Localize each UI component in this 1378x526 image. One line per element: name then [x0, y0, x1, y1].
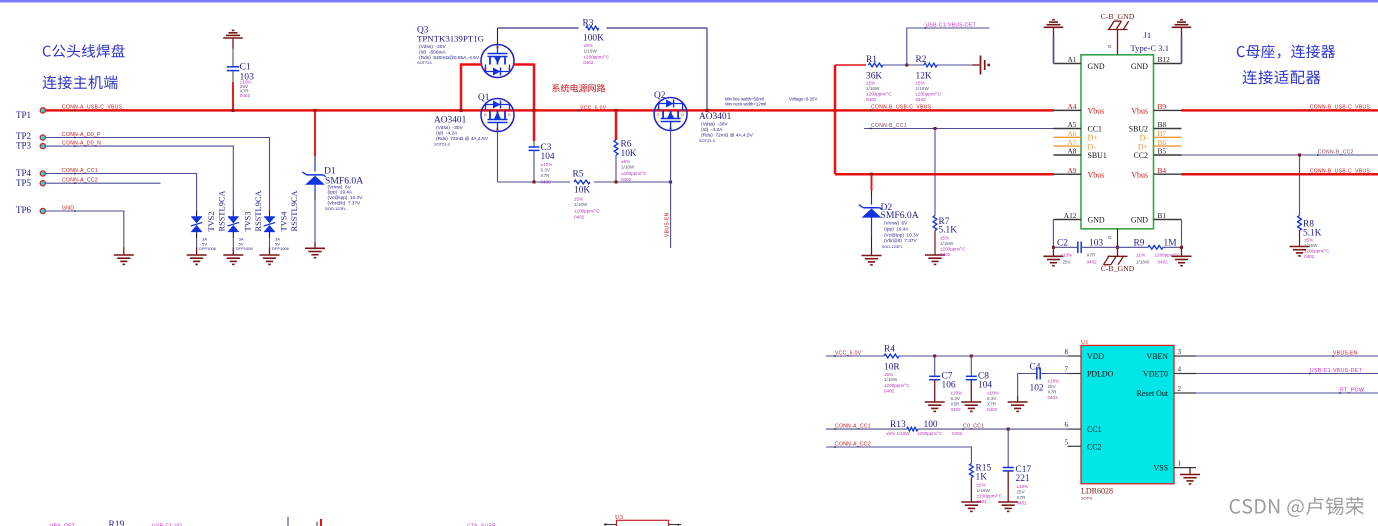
- svg-text:TP6: TP6: [16, 205, 32, 215]
- svg-text:USB-C1-VBUS-DET: USB-C1-VBUS-DET: [1310, 368, 1363, 374]
- svg-text:X7R: X7R: [1087, 253, 1097, 258]
- svg-text:VCC_5.0V: VCC_5.0V: [580, 105, 607, 111]
- svg-text:SOP-8: SOP-8: [1081, 496, 1092, 500]
- svg-text:±200ppm/°C: ±200ppm/°C: [1304, 249, 1330, 254]
- svg-text:SBU2: SBU2: [1129, 125, 1148, 134]
- svg-text:±1%: ±1%: [1136, 253, 1145, 258]
- svg-text:CC1: CC1: [1088, 125, 1103, 134]
- svg-text:D-: D-: [1088, 142, 1097, 151]
- svg-text:1/16W: 1/16W: [940, 241, 954, 246]
- svg-text:(Id) -4.2A: (Id) -4.2A: [701, 127, 723, 133]
- svg-text:(Vc@Ipp) 10.3V: (Vc@Ipp) 10.3V: [884, 232, 920, 237]
- svg-text:R2: R2: [916, 55, 927, 65]
- svg-text:0402: 0402: [951, 407, 962, 412]
- svg-text:X5R: X5R: [951, 402, 961, 407]
- svg-text:104: 104: [541, 152, 555, 162]
- svg-text:6.3V: 6.3V: [987, 396, 997, 401]
- svg-text:0402: 0402: [1304, 254, 1315, 259]
- svg-text:±5%: ±5%: [940, 236, 949, 241]
- svg-text:R9: R9: [1134, 239, 1145, 249]
- svg-text:VCC_5.0V: VCC_5.0V: [835, 350, 862, 356]
- svg-text:D-: D-: [1140, 134, 1149, 143]
- svg-text:CONN-A_D0_P: CONN-A_D0_P: [62, 132, 101, 138]
- svg-text:±5%: ±5%: [866, 81, 875, 86]
- svg-text:221: 221: [1016, 474, 1030, 484]
- svg-text:5: 5: [1065, 438, 1069, 446]
- svg-text:TP1: TP1: [16, 110, 31, 120]
- svg-text:±5%: ±5%: [1304, 238, 1313, 243]
- svg-text:±200ppm/°C: ±200ppm/°C: [917, 431, 943, 436]
- svg-text:±200ppm/°C: ±200ppm/°C: [977, 494, 1003, 499]
- svg-text:A8: A8: [1067, 147, 1076, 156]
- svg-text:G: G: [1108, 235, 1112, 240]
- svg-text:D+: D+: [1088, 134, 1099, 143]
- svg-text:C4: C4: [1030, 363, 1041, 373]
- svg-text:DFP1006: DFP1006: [272, 246, 290, 251]
- svg-text:0402: 0402: [1087, 260, 1098, 265]
- svg-text:0402: 0402: [884, 389, 895, 394]
- svg-text:Vbus: Vbus: [1088, 107, 1105, 116]
- svg-text:1: 1: [1178, 460, 1182, 468]
- svg-text:R5: R5: [573, 170, 584, 180]
- svg-text:DFP1006: DFP1006: [199, 246, 217, 251]
- svg-text:0402: 0402: [940, 252, 951, 257]
- svg-text:VBUS-EN: VBUS-EN: [665, 212, 671, 237]
- svg-text:0402: 0402: [240, 93, 251, 98]
- svg-text:A12: A12: [1064, 211, 1077, 220]
- svg-text:VBEN: VBEN: [1147, 352, 1169, 361]
- svg-text:D: D: [484, 67, 487, 71]
- svg-text:25V: 25V: [1017, 490, 1026, 495]
- svg-text:R19: R19: [109, 520, 125, 526]
- svg-text:U3: U3: [615, 514, 623, 521]
- svg-text:Reset Out: Reset Out: [1137, 389, 1169, 398]
- svg-text:B9: B9: [1158, 102, 1167, 111]
- svg-text:B12: B12: [1158, 55, 1171, 64]
- svg-text:±10%: ±10%: [987, 391, 999, 396]
- svg-text:B7: B7: [1158, 129, 1167, 138]
- svg-text:CONN-A_CC1: CONN-A_CC1: [62, 168, 98, 174]
- svg-text:SOT23-3: SOT23-3: [699, 138, 715, 143]
- svg-text:SOT723: SOT723: [417, 60, 432, 65]
- svg-text:±200ppm/°C: ±200ppm/°C: [574, 209, 600, 214]
- svg-text:±20%: ±20%: [951, 391, 963, 396]
- svg-text:0402: 0402: [621, 177, 632, 182]
- svg-text:CONN-B_USB-C_VBUS: CONN-B_USB-C_VBUS: [1310, 169, 1371, 175]
- svg-text:1/16W: 1/16W: [977, 488, 991, 493]
- svg-text:±10%: ±10%: [1061, 253, 1073, 258]
- svg-text:Q1: Q1: [478, 93, 490, 103]
- svg-text:(Vrmw) 6V: (Vrmw) 6V: [884, 221, 908, 226]
- svg-text:1/16W: 1/16W: [884, 377, 898, 382]
- svg-text:±200ppm/°C: ±200ppm/°C: [621, 171, 647, 176]
- svg-text:±10%: ±10%: [1017, 484, 1029, 489]
- svg-text:TPNTK3139PT1G: TPNTK3139PT1G: [417, 34, 485, 44]
- svg-text:100K: 100K: [583, 34, 604, 44]
- svg-text:0402: 0402: [1048, 395, 1059, 400]
- svg-text:10K: 10K: [574, 186, 590, 196]
- svg-text:C0_CC1: C0_CC1: [963, 423, 984, 429]
- svg-text:1/16W: 1/16W: [574, 202, 588, 207]
- svg-text:GND: GND: [1088, 216, 1105, 225]
- svg-text:(Ipp) 19.4A: (Ipp) 19.4A: [328, 190, 353, 195]
- svg-text:G: G: [496, 128, 499, 132]
- svg-text:RSSTL9CA: RSSTL9CA: [217, 191, 226, 232]
- svg-text:(Id) -4.2A: (Id) -4.2A: [436, 131, 458, 137]
- svg-text:±200ppm/°C: ±200ppm/°C: [916, 92, 942, 97]
- svg-text:Voltage=5-20V: Voltage=5-20V: [789, 97, 817, 102]
- svg-text:(Vbr@It) 7.37V: (Vbr@It) 7.37V: [884, 238, 918, 243]
- svg-text:TP2: TP2: [16, 131, 31, 141]
- svg-text:±200ppm/°C: ±200ppm/°C: [866, 92, 892, 97]
- svg-text:R13: R13: [890, 420, 906, 430]
- svg-text:SOD-123FL: SOD-123FL: [325, 206, 347, 211]
- svg-text:±5%: ±5%: [916, 81, 925, 86]
- svg-text:1/16W: 1/16W: [916, 86, 930, 91]
- svg-text:B8: B8: [1158, 120, 1167, 129]
- svg-text:DFP1006: DFP1006: [236, 246, 254, 251]
- svg-text:A1: A1: [1067, 55, 1076, 64]
- svg-text:TP3: TP3: [16, 141, 32, 151]
- svg-text:CONN-A_CC1: CONN-A_CC1: [835, 423, 871, 429]
- svg-text:103: 103: [1089, 239, 1103, 249]
- svg-text:6.3V: 6.3V: [951, 396, 961, 401]
- svg-text:GND: GND: [1131, 62, 1148, 71]
- svg-text:A7: A7: [1067, 138, 1076, 147]
- svg-text:5.1K: 5.1K: [939, 226, 958, 236]
- svg-text:R6: R6: [621, 140, 632, 150]
- svg-text:R1: R1: [866, 55, 877, 65]
- svg-text:±10%: ±10%: [541, 162, 553, 167]
- svg-text:(Vdss) -30V: (Vdss) -30V: [436, 125, 463, 131]
- svg-text:1/16W: 1/16W: [621, 165, 635, 170]
- svg-text:0402: 0402: [916, 97, 927, 102]
- svg-text:(Vdss) -30V: (Vdss) -30V: [701, 122, 728, 128]
- svg-text:VBUS-EN: VBUS-EN: [1333, 350, 1358, 356]
- svg-text:100: 100: [924, 420, 938, 430]
- svg-text:6: 6: [1065, 421, 1069, 429]
- svg-text:7: 7: [1065, 366, 1069, 374]
- svg-text:1/16W: 1/16W: [866, 86, 880, 91]
- svg-text:A5: A5: [1067, 120, 1076, 129]
- svg-text:±5%: ±5%: [977, 483, 986, 488]
- svg-text:±5%: ±5%: [574, 197, 583, 202]
- svg-text:0402: 0402: [866, 97, 877, 102]
- svg-text:R3: R3: [583, 19, 594, 29]
- svg-text:X7R: X7R: [1017, 495, 1027, 500]
- svg-text:D: D: [484, 113, 487, 117]
- svg-text:CONN-B_USB-C_VBUS: CONN-B_USB-C_VBUS: [871, 105, 932, 111]
- svg-text:A9: A9: [1067, 166, 1076, 175]
- svg-text:102: 102: [1030, 384, 1044, 394]
- svg-text:D+: D+: [1138, 142, 1149, 151]
- svg-text:(Vbr@It) 7.37V: (Vbr@It) 7.37V: [328, 201, 362, 206]
- svg-text:B1: B1: [1158, 211, 1167, 220]
- svg-text:4: 4: [1178, 366, 1182, 374]
- svg-text:2: 2: [1178, 385, 1182, 393]
- svg-text:25V: 25V: [1048, 384, 1057, 389]
- svg-text:CONN-B_USB-C_VBUS: CONN-B_USB-C_VBUS: [1310, 105, 1371, 111]
- svg-text:0402: 0402: [583, 60, 594, 65]
- svg-text:(Vdss) -20V: (Vdss) -20V: [419, 44, 446, 50]
- svg-text:VSS: VSS: [1154, 464, 1168, 473]
- svg-text:TP4: TP4: [16, 168, 32, 178]
- svg-text:0402: 0402: [574, 215, 585, 220]
- svg-text:0402: 0402: [952, 431, 963, 436]
- svg-text:Vbus: Vbus: [1131, 107, 1148, 116]
- svg-text:CONN-A_CC2: CONN-A_CC2: [62, 178, 98, 184]
- svg-text:±10%: ±10%: [1048, 379, 1060, 384]
- svg-text:1/16W: 1/16W: [1136, 260, 1150, 265]
- svg-text:AO3401: AO3401: [434, 116, 467, 126]
- svg-text:LDR6028: LDR6028: [1081, 487, 1113, 496]
- svg-text:6.3V: 6.3V: [541, 168, 551, 173]
- svg-text:G: G: [669, 127, 672, 131]
- svg-text:B4: B4: [1158, 166, 1167, 175]
- svg-text:CONN-A_CC2: CONN-A_CC2: [835, 441, 871, 447]
- svg-text:C-B_GND: C-B_GND: [1101, 12, 1135, 21]
- svg-text:A6: A6: [1067, 129, 1076, 138]
- svg-text:Vbus: Vbus: [1131, 170, 1148, 179]
- svg-text:3: 3: [1178, 348, 1182, 356]
- svg-text:X7R: X7R: [987, 402, 997, 407]
- svg-text:CONN-B_CC2: CONN-B_CC2: [1318, 149, 1354, 155]
- svg-text:±200ppm/°C: ±200ppm/°C: [884, 383, 910, 388]
- svg-text:AO3401: AO3401: [699, 112, 732, 122]
- svg-text:0402: 0402: [977, 499, 988, 504]
- svg-text:GND: GND: [1088, 62, 1105, 71]
- svg-text:TVS3: TVS3: [244, 211, 253, 231]
- svg-text:VDET0: VDET0: [1143, 370, 1168, 379]
- svg-text:25V: 25V: [1063, 260, 1072, 265]
- svg-text:CC1: CC1: [1087, 425, 1102, 434]
- svg-text:VDD: VDD: [1087, 352, 1104, 361]
- svg-text:U1: U1: [1081, 340, 1088, 346]
- svg-text:(Ipp) 19.4A: (Ipp) 19.4A: [884, 226, 909, 231]
- svg-text:SBU1: SBU1: [1088, 151, 1107, 160]
- svg-text:G: G: [496, 46, 499, 50]
- svg-text:B6: B6: [1158, 138, 1167, 147]
- svg-text:Type-C 3.1: Type-C 3.1: [1131, 43, 1170, 53]
- svg-text:8: 8: [1065, 348, 1069, 356]
- svg-text:RSSTL9CA: RSSTL9CA: [254, 191, 263, 232]
- svg-text:RSSTL9CA: RSSTL9CA: [290, 191, 299, 232]
- svg-text:0402: 0402: [1158, 260, 1169, 265]
- svg-text:J1: J1: [1144, 30, 1152, 40]
- svg-text:GND: GND: [1131, 216, 1148, 225]
- svg-text:TVS4: TVS4: [280, 211, 289, 232]
- svg-text:A4: A4: [1067, 102, 1076, 111]
- svg-text:TVS2: TVS2: [207, 211, 216, 231]
- svg-text:1/16W: 1/16W: [584, 49, 598, 54]
- svg-text:CONN-A_D0_N: CONN-A_D0_N: [62, 141, 101, 147]
- svg-text:CC2: CC2: [1134, 151, 1149, 160]
- svg-text:0402: 0402: [987, 407, 998, 412]
- svg-text:CONN-A_USB-C_VBUS: CONN-A_USB-C_VBUS: [62, 105, 123, 111]
- svg-text:±200ppm/°C: ±200ppm/°C: [584, 55, 610, 60]
- svg-text:C-B_GND: C-B_GND: [1101, 264, 1135, 273]
- svg-text:0402: 0402: [1017, 501, 1028, 506]
- svg-text:1K: 1K: [976, 473, 988, 483]
- svg-text:106: 106: [942, 381, 956, 391]
- svg-text:SOT23-3: SOT23-3: [434, 142, 450, 147]
- svg-text:C2: C2: [1057, 239, 1068, 249]
- svg-text:R4: R4: [884, 345, 895, 355]
- svg-text:TP5: TP5: [16, 178, 32, 188]
- svg-text:CONN-B_CC1: CONN-B_CC1: [871, 123, 907, 129]
- svg-text:±5%: ±5%: [584, 43, 593, 48]
- svg-text:104: 104: [978, 381, 992, 391]
- svg-text:B5: B5: [1158, 147, 1167, 156]
- svg-text:±5%: ±5%: [621, 159, 630, 164]
- svg-text:PDLDO: PDLDO: [1087, 370, 1114, 379]
- svg-text:SOD-123FL: SOD-123FL: [882, 244, 904, 249]
- svg-text:±200ppm/°C: ±200ppm/°C: [940, 247, 966, 252]
- svg-text:Vbus: Vbus: [1088, 170, 1105, 179]
- svg-text:10K: 10K: [621, 149, 637, 159]
- svg-text:(Vrmw) 6V: (Vrmw) 6V: [328, 184, 352, 189]
- svg-text:D: D: [681, 113, 684, 117]
- svg-text:1M: 1M: [1164, 239, 1178, 249]
- svg-text:Q2: Q2: [654, 91, 666, 101]
- svg-text:(Vc@Ipp) 10.3V: (Vc@Ipp) 10.3V: [328, 195, 364, 200]
- svg-text:(Id) -650mA: (Id) -650mA: [419, 50, 446, 56]
- svg-text:Min neck width=12mil: Min neck width=12mil: [725, 102, 766, 107]
- svg-text:RT_POW: RT_POW: [1340, 387, 1364, 393]
- svg-text:G: G: [1108, 44, 1112, 49]
- svg-text:GND: GND: [62, 206, 74, 212]
- svg-text:±5% 1/16W: ±5% 1/16W: [886, 431, 910, 436]
- svg-text:CC2: CC2: [1087, 442, 1102, 451]
- svg-text:X7R: X7R: [541, 173, 551, 178]
- svg-text:X7R: X7R: [1048, 390, 1058, 395]
- svg-text:1/16W: 1/16W: [1304, 243, 1318, 248]
- svg-text:USB-C1-VBUS-DET: USB-C1-VBUS-DET: [926, 23, 977, 29]
